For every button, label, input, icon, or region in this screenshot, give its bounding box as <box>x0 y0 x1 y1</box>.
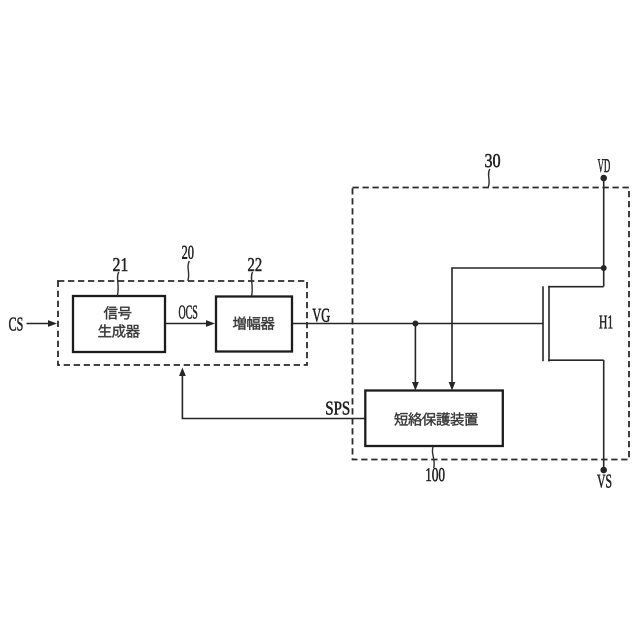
ref number 100 <box>426 468 444 481</box>
terminal dot VD <box>600 175 607 182</box>
ref number 22 <box>248 258 261 271</box>
leader line for 21 <box>117 272 119 296</box>
transistor H1 channel bar <box>548 286 550 362</box>
ref number 20 <box>182 246 193 259</box>
label VG <box>312 309 329 322</box>
junction dot on VG line <box>412 321 418 327</box>
arrowhead OCS into amplifier 22 <box>206 320 215 327</box>
label H1 <box>599 316 612 329</box>
leader line for 22 <box>251 272 252 296</box>
text short-circuit protection device 短絡保護装置 <box>394 412 477 425</box>
leader line for 20 <box>188 261 190 281</box>
dashed block 20 <box>58 281 307 365</box>
arrowhead CS into block 20 <box>48 320 57 327</box>
box 22: amplifier <box>216 297 292 352</box>
leader line for 30 <box>488 169 490 187</box>
arrowhead drain branch into protection device <box>449 382 456 391</box>
ref number 21 <box>113 258 127 271</box>
box 100: short-circuit protection device <box>365 391 503 447</box>
transistor H1 source stub <box>548 359 604 361</box>
arrowhead SPS into block 20 <box>179 368 186 377</box>
wire OCS: signal generator to amplifier <box>165 323 207 325</box>
wire SPS: protection device output back to block 20 <box>182 376 365 419</box>
ref number 30 <box>485 154 500 167</box>
label VS <box>597 475 611 488</box>
wire VD terminal to drain <box>603 178 605 287</box>
wire source to VS terminal <box>603 360 605 470</box>
label SPS <box>326 402 349 415</box>
terminal dot VS <box>600 467 607 474</box>
label VD <box>598 159 610 172</box>
transistor H1 drain stub <box>548 286 604 288</box>
label OCS <box>179 305 197 318</box>
wire VG branch down to protection device <box>414 324 416 384</box>
label CS <box>9 317 22 330</box>
transistor H1 gate bar <box>542 286 544 361</box>
text signal generator line1 信号 <box>104 306 131 319</box>
box 21: signal generator <box>73 296 165 352</box>
wire drain sense branch to protection device <box>452 268 604 383</box>
leader line for 100 <box>432 446 434 468</box>
junction dot on VD drain line <box>601 265 607 271</box>
wire VG: amplifier output to gate of H1 <box>292 323 544 325</box>
arrowhead VG branch into protection device <box>412 382 419 391</box>
dashed block 30 <box>353 188 630 460</box>
wire CS input <box>27 323 50 325</box>
text amplifier 増幅器 <box>233 316 275 329</box>
text signal generator line2 生成器 <box>98 324 139 337</box>
